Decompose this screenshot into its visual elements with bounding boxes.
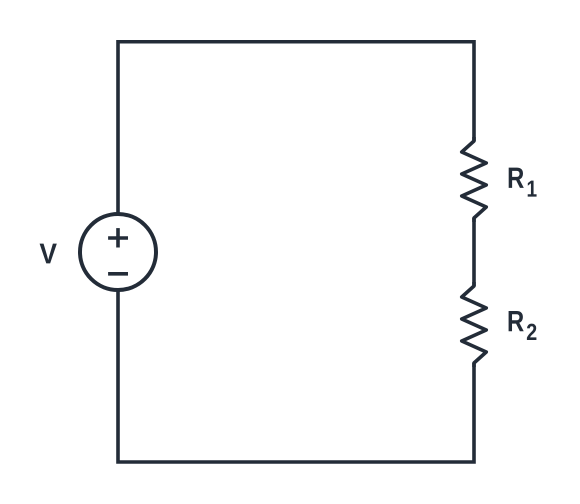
label V [40,244,57,264]
wire bottom loop: right wire lower segment, bottom wire, left wire lower segment [118,290,474,463]
label R1 subscript 1 [528,181,537,197]
voltage source plus sign [108,228,128,247]
wire top-left loop: left wire upper segment, top wire, right wire upper segment [118,42,474,216]
label R2 subscript 2 [527,324,537,340]
resistor R2 [462,282,487,367]
label R1 'R' [509,168,524,188]
wire between R1 and R2 [472,218,476,286]
label R2 'R' [509,311,524,331]
voltage source V circle [80,214,156,290]
resistor R1 [462,137,487,222]
voltage source minus sign [108,272,128,276]
